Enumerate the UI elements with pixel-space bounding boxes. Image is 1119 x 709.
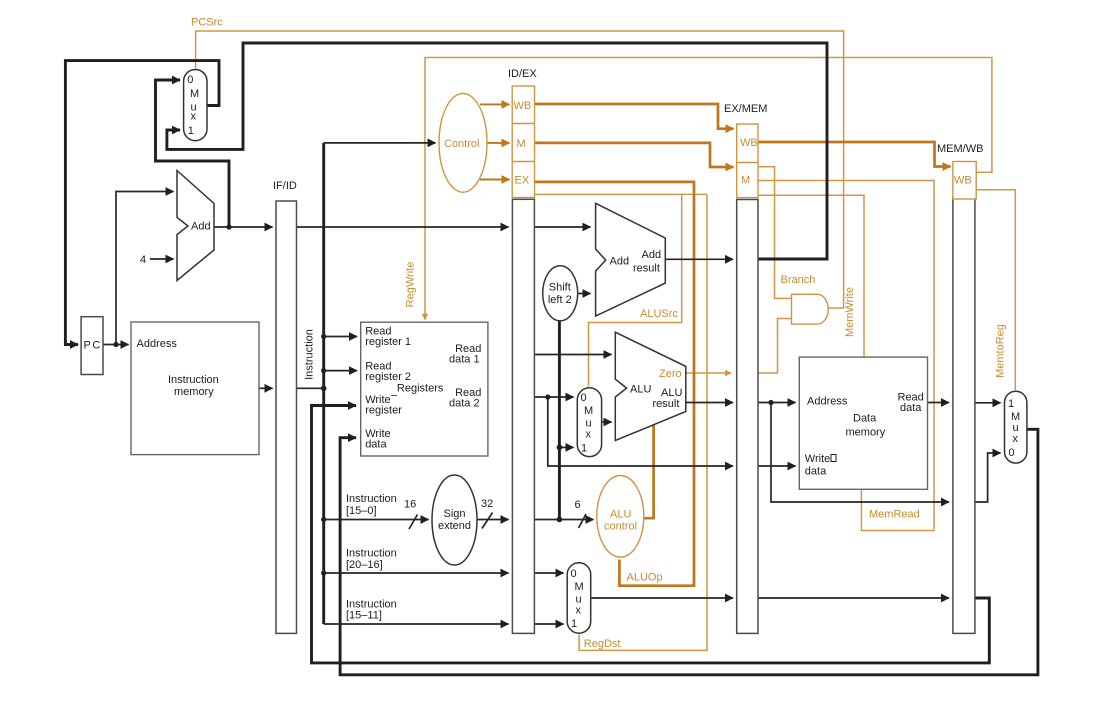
svg-text:x: x (586, 429, 592, 441)
svg-text:Address: Address (807, 396, 848, 408)
svg-text:ID/EX: ID/EX (508, 68, 537, 80)
svg-text:[20–16]: [20–16] (346, 559, 383, 571)
svg-text:[15–11]: [15–11] (346, 610, 382, 622)
svg-text:ALUOp: ALUOp (627, 572, 663, 584)
svg-text:extend: extend (438, 520, 471, 532)
svg-text:ALUSrc: ALUSrc (640, 308, 678, 320)
svg-text:M: M (741, 175, 750, 187)
svg-text:Instruction: Instruction (168, 374, 219, 386)
svg-text:M: M (190, 88, 199, 100)
svg-text:Add: Add (191, 221, 211, 233)
svg-text:data: data (365, 439, 387, 451)
svg-text:EX/MEM: EX/MEM (724, 103, 767, 115)
svg-text:result: result (633, 263, 660, 275)
svg-text:data 1: data 1 (449, 354, 480, 366)
svg-text:Add: Add (642, 249, 662, 261)
svg-text:x: x (191, 111, 197, 123)
svg-text:PC: PC (84, 340, 102, 352)
svg-text:register 2: register 2 (365, 371, 411, 383)
svg-text:register: register (365, 405, 402, 417)
svg-text:6: 6 (575, 499, 581, 511)
svg-text:WB: WB (514, 100, 532, 112)
svg-text:data: data (805, 466, 827, 478)
svg-text:1: 1 (1008, 398, 1014, 410)
svg-text:Instruction: Instruction (304, 329, 316, 380)
svg-text:IF/ID: IF/ID (273, 180, 297, 192)
svg-text:1: 1 (571, 618, 577, 630)
svg-text:MemWrite: MemWrite (844, 287, 856, 337)
svg-text:M: M (517, 138, 526, 150)
svg-text:Write: Write (805, 453, 830, 465)
svg-text:[15–0]: [15–0] (346, 505, 377, 517)
svg-text:0: 0 (571, 568, 577, 580)
svg-text:ALU: ALU (610, 509, 631, 521)
svg-text:1: 1 (581, 443, 587, 455)
svg-text:WB: WB (954, 175, 972, 187)
svg-text:Add: Add (610, 256, 630, 268)
svg-text:data: data (900, 402, 922, 414)
svg-text:left 2: left 2 (548, 294, 572, 306)
svg-text:result: result (653, 398, 680, 410)
svg-text:data 2: data 2 (449, 398, 480, 410)
svg-text:16: 16 (404, 499, 416, 511)
svg-text:x: x (576, 605, 582, 617)
svg-text:MEM/WB: MEM/WB (937, 143, 983, 155)
svg-text:RegDst: RegDst (584, 638, 621, 650)
svg-text:Sign: Sign (443, 508, 465, 520)
svg-text:Data: Data (853, 413, 877, 425)
svg-text:MemtoReg: MemtoReg (995, 324, 1007, 378)
svg-text:M: M (584, 405, 593, 417)
svg-text:Zero: Zero (659, 368, 682, 380)
svg-text:0: 0 (581, 392, 587, 404)
svg-text:MemRead: MemRead (869, 509, 920, 521)
svg-text:32: 32 (481, 498, 493, 510)
svg-text:WB: WB (740, 137, 758, 149)
svg-text:0: 0 (1009, 447, 1015, 459)
svg-text:0: 0 (187, 74, 193, 86)
svg-text:Address: Address (137, 338, 178, 350)
svg-text:PCSrc: PCSrc (191, 17, 223, 29)
svg-text:memory: memory (846, 427, 886, 439)
svg-text:memory: memory (174, 386, 214, 398)
svg-text:Control: Control (444, 138, 479, 150)
svg-text:Shift: Shift (549, 282, 571, 294)
svg-text:RegWrite: RegWrite (405, 262, 417, 308)
svg-text:Registers: Registers (397, 383, 444, 395)
svg-text:Branch: Branch (781, 274, 816, 286)
svg-text:Instruction: Instruction (346, 493, 397, 505)
svg-text:control: control (604, 521, 637, 533)
svg-text:–: – (391, 390, 398, 402)
svg-text:Instruction: Instruction (346, 548, 397, 560)
svg-text:register 1: register 1 (365, 336, 411, 348)
svg-text:x: x (1013, 433, 1019, 445)
svg-text:EX: EX (515, 175, 530, 187)
svg-text:ALU: ALU (630, 384, 651, 396)
svg-text:1: 1 (188, 125, 194, 137)
svg-text:4: 4 (140, 254, 146, 266)
svg-text:M: M (575, 581, 584, 593)
